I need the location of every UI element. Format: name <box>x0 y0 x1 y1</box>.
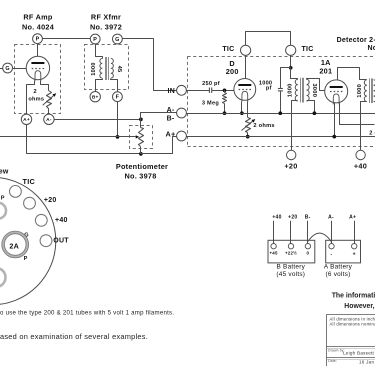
wire cap bottom to rail <box>280 91 282 113</box>
svg-text:1000: 1000 <box>288 83 294 97</box>
wire 1A fil left to A+ rail <box>334 103 336 137</box>
label RF Amp No. 4024 <box>22 13 55 32</box>
dashed box RF Amp <box>15 45 61 114</box>
svg-text:0: 0 <box>307 250 310 255</box>
note line 1 <box>0 310 174 317</box>
label +20 stub <box>288 214 297 220</box>
wire pot bottom <box>140 147 142 154</box>
wire output primary bottom to +40 <box>361 102 367 151</box>
svg-text:OUT: OUT <box>53 237 69 244</box>
terminal A- (RF Amp) <box>44 114 54 124</box>
svg-text:The informati: The informati <box>332 292 375 299</box>
svg-text:A Battery: A Battery <box>324 264 353 271</box>
terminal G (RF Amp) <box>3 63 13 73</box>
svg-text:201: 201 <box>319 67 332 76</box>
terminal F (Xfmr) <box>113 92 123 102</box>
wire primary bottom to +20 <box>292 101 298 151</box>
svg-text:IN: IN <box>168 88 176 95</box>
svg-text:A+: A+ <box>23 117 30 123</box>
svg-text:TIC: TIC <box>222 46 234 53</box>
svg-text:G: G <box>115 37 119 43</box>
output xfmr core <box>370 78 373 103</box>
B terminal +22.5 <box>285 244 297 256</box>
title block frame <box>327 314 375 366</box>
tickler jumper loop <box>246 32 291 46</box>
terminal A+ (RF Amp) <box>21 114 31 124</box>
secondary winding 45 <box>111 59 113 79</box>
wire det rheostat to A+ rail <box>247 133 249 137</box>
title text date <box>359 360 375 365</box>
wire +40 stub <box>273 221 275 244</box>
junction dot grid leak top <box>223 88 227 92</box>
label B- <box>167 116 175 123</box>
svg-text:A-: A- <box>328 214 334 220</box>
svg-text:A+: A+ <box>349 214 356 220</box>
note line 2 <box>0 332 148 341</box>
label A- stub <box>328 214 334 220</box>
svg-text:P: P <box>24 256 28 262</box>
svg-text:G: G <box>5 66 9 72</box>
tube V3 amp 201 <box>325 80 348 105</box>
svg-text:F: F <box>116 95 120 101</box>
wire A- stub <box>331 221 333 244</box>
terminal IN <box>177 85 187 95</box>
dashed box potentiometer <box>130 126 153 149</box>
wire A+ stub <box>354 221 356 244</box>
svg-text:2: 2 <box>34 89 37 95</box>
panel outline circle <box>0 177 56 305</box>
label +40 <box>354 161 367 170</box>
junction dot A-/pot <box>139 118 143 122</box>
label No (cut at edge) <box>368 45 375 52</box>
title text date label <box>328 359 337 363</box>
svg-text:2 ohms: 2 ohms <box>253 123 274 129</box>
svg-text:3 Meg: 3 Meg <box>202 100 219 106</box>
svg-text:B-: B- <box>167 116 175 123</box>
label A Battery <box>324 264 353 278</box>
svg-text:TIC: TIC <box>23 177 36 186</box>
output secondary winding (cut) <box>374 80 375 102</box>
wire left edge to G <box>0 68 3 70</box>
label +20 <box>284 161 297 170</box>
svg-text:200: 200 <box>226 67 239 76</box>
wire node to cap <box>281 68 291 89</box>
svg-text:+40: +40 <box>354 161 367 170</box>
label 2 ohms det <box>253 123 274 129</box>
dashed box detector section <box>188 56 375 147</box>
wire bottom to A+ terminal <box>141 137 177 154</box>
label 1000 pf <box>259 81 272 92</box>
label 1000 (output xfmr) <box>357 84 363 98</box>
svg-text:-: - <box>331 252 333 258</box>
svg-text:A-: A- <box>167 107 175 114</box>
terminal TIC 2 <box>286 45 296 55</box>
terminal P (RF Amp) <box>33 34 43 44</box>
svg-text:+45: +45 <box>269 250 278 255</box>
svg-text:Potentiometer: Potentiometer <box>116 162 168 171</box>
svg-text:Detector 2-: Detector 2- <box>337 37 375 44</box>
primary winding 1000 (audio xfmr) <box>295 79 298 101</box>
svg-text:o use the type 200 & 201 tubes: o use the type 200 & 201 tubes with 5 vo… <box>0 310 174 317</box>
B battery box <box>268 240 315 263</box>
label +20 panel <box>44 197 57 204</box>
svg-text:+20: +20 <box>44 197 57 204</box>
label B- stub <box>305 214 311 220</box>
wire TIC1 to plate cap <box>245 55 247 78</box>
primary winding 1000 <box>100 59 102 79</box>
svg-text:3000: 3000 <box>311 83 317 97</box>
label 2 (ohms cut at edge) <box>369 130 375 136</box>
pot wiper arrow <box>118 135 140 138</box>
wire primary bottom to B+ <box>96 79 103 92</box>
wire IN to cap <box>186 90 209 92</box>
capacitor 1000 pf <box>278 89 283 91</box>
wire TIC2 down to node <box>290 55 292 67</box>
terminal A-/B- <box>177 108 187 118</box>
wire +20 stub <box>290 221 292 244</box>
junction dot secondary bottom <box>313 111 317 115</box>
junction dot 3 Meg bottom <box>223 111 227 115</box>
wire cap to grid <box>212 90 234 92</box>
wire wiper line from left edge <box>0 136 118 138</box>
label 3000 (audio xfmr) <box>311 83 317 97</box>
label D 200 <box>226 59 239 76</box>
label 45 (RF xfmr) <box>116 66 122 73</box>
label P panel <box>1 195 5 201</box>
rheostat 2 ohms det <box>242 118 256 133</box>
svg-text:+20: +20 <box>284 161 297 170</box>
terminal TIC 1 <box>241 45 251 55</box>
wire filament skirt <box>27 81 49 115</box>
label TIC right <box>302 46 314 53</box>
terminal +20 <box>287 150 296 159</box>
wire pot top to B- terminal <box>141 113 177 128</box>
wire secondary bottom to rail <box>307 101 315 114</box>
wire B- stub <box>307 221 309 244</box>
panel hole +40 <box>35 214 47 226</box>
label G panel <box>24 233 29 239</box>
label 1000 (audio xfmr) <box>288 83 294 97</box>
svg-text:ew: ew <box>0 168 9 175</box>
label B Battery <box>276 264 305 278</box>
svg-text:P: P <box>36 37 40 43</box>
svg-text:No. 3972: No. 3972 <box>90 23 122 32</box>
svg-text:A+: A+ <box>165 129 175 138</box>
title text drawn by <box>328 348 345 352</box>
wire node to primary top <box>291 68 298 80</box>
terminal +40 <box>356 150 365 159</box>
svg-text:All dimensions nominal).: All dimensions nominal). <box>330 322 375 327</box>
svg-text:Date:: Date: <box>328 359 337 363</box>
label TIC panel <box>23 177 36 186</box>
wire G xfmr to IN jog <box>123 39 177 91</box>
terminal G (Xfmr) <box>113 34 123 44</box>
svg-text:B+: B+ <box>92 95 99 101</box>
wire 1A fil right jog to right edge <box>340 103 375 125</box>
dashed box RF Xfmr <box>85 45 129 90</box>
svg-text:+40: +40 <box>272 214 281 220</box>
svg-text:Leigh Bassett W3: Leigh Bassett W3 <box>343 350 375 355</box>
svg-text:(6 volts): (6 volts) <box>326 271 351 278</box>
jumper arc B- to A- <box>308 233 332 242</box>
pot resistor <box>139 128 144 147</box>
svg-text:B-: B- <box>305 214 311 220</box>
grid leak 3 Meg <box>223 90 227 113</box>
label Potentiometer <box>116 162 168 181</box>
label RF Xfmr No. 3972 <box>90 13 122 32</box>
svg-text:TIC: TIC <box>302 46 314 53</box>
secondary winding 3000 <box>307 79 310 101</box>
terminal A+ <box>177 131 187 141</box>
panel hole OUT <box>40 235 52 247</box>
A terminal - <box>329 244 334 258</box>
B terminal +45 <box>269 244 278 256</box>
svg-text:+40: +40 <box>55 217 68 224</box>
svg-text:ohms: ohms <box>28 97 44 103</box>
label 2A <box>9 242 19 251</box>
terminal B+ (Xfmr) <box>90 92 100 102</box>
A terminal + <box>352 244 357 258</box>
label A+ terminal <box>165 129 175 138</box>
panel hole TIC <box>10 186 22 198</box>
svg-text:B Battery: B Battery <box>277 264 306 271</box>
junction dot pot bottom <box>139 152 143 156</box>
tube V2 detector 200 <box>234 79 256 102</box>
svg-text:No. 3978: No. 3978 <box>124 172 156 181</box>
svg-text:ased on examination of several: ased on examination of several examples. <box>0 332 148 341</box>
svg-text:2 o: 2 o <box>369 130 375 136</box>
label 250 pf <box>202 81 220 87</box>
terminal P (Xfmr) <box>90 34 100 44</box>
B terminal 0 <box>305 244 310 256</box>
wire A- to pot node <box>54 119 141 121</box>
label A+ stub <box>349 214 356 220</box>
label 2 ohms (RF amp) <box>28 89 44 102</box>
junction dot F/wiper <box>116 135 120 139</box>
panel jack bottom-left <box>0 268 6 287</box>
title text name <box>343 350 375 355</box>
audio xfmr core <box>301 78 304 103</box>
wire A+ down and along bottom <box>27 125 141 154</box>
label +40 stub <box>272 214 281 220</box>
svg-text:No. 4024: No. 4024 <box>22 23 55 32</box>
label 3 Meg <box>202 100 219 106</box>
svg-text:RF Xfmr: RF Xfmr <box>91 13 121 22</box>
svg-text:16 Jan 2: 16 Jan 2 <box>359 360 375 365</box>
output primary winding 1000 <box>364 80 367 102</box>
junction dot TIC2 node <box>289 66 293 70</box>
junction dot 1A fil left <box>332 135 336 139</box>
title text dimensions <box>330 316 375 326</box>
svg-text:+22½: +22½ <box>285 250 297 255</box>
svg-text:1000: 1000 <box>357 84 363 98</box>
wire P lead into xfmr <box>96 44 103 59</box>
label P panel lower <box>24 256 28 262</box>
label Detector 2- (cut at edge) <box>337 37 375 44</box>
note The information <box>332 292 375 299</box>
wire 1A plate to output xfmr <box>338 68 367 80</box>
label OUT panel <box>53 237 69 244</box>
svg-text:However,: However, <box>344 303 374 310</box>
junction dot det fil left <box>240 111 244 115</box>
label TIC left <box>222 46 234 53</box>
wire P to tube top <box>37 44 39 57</box>
wire det fil left <box>241 102 243 114</box>
rail A+ to right edge <box>186 136 375 138</box>
capacitor 250 pf <box>209 88 211 93</box>
wire G to tube <box>13 68 27 70</box>
svg-text:pf: pf <box>266 86 272 92</box>
panel jack P <box>0 203 6 219</box>
wire F down to wiper line <box>117 102 119 137</box>
rheostat 2 ohms RF amp <box>43 91 57 109</box>
junction dot det rheostat <box>246 135 250 139</box>
svg-text:2A: 2A <box>9 242 19 251</box>
rail A-/B- to right edge <box>186 113 375 115</box>
socket 2A ring <box>2 231 29 258</box>
label +40 panel <box>55 217 68 224</box>
panel hole +20 <box>24 197 36 209</box>
note However <box>344 303 374 310</box>
label 1000 (RF xfmr) <box>91 62 97 75</box>
svg-text:P: P <box>1 195 5 201</box>
label 1A 201 <box>319 58 332 76</box>
junction dot cap bottom <box>278 111 282 115</box>
A battery box <box>326 240 361 263</box>
label A- <box>167 107 175 114</box>
svg-text:A-: A- <box>46 117 52 123</box>
xfmr core <box>106 57 109 80</box>
svg-text:RF Amp: RF Amp <box>23 13 52 22</box>
svg-text:+: + <box>353 252 356 258</box>
wire det fil right to rheostat <box>247 102 249 118</box>
svg-text:P: P <box>93 37 97 43</box>
svg-text:250 pf: 250 pf <box>202 81 220 87</box>
svg-text:45: 45 <box>116 66 122 73</box>
wire secondary bottom to F <box>111 79 118 92</box>
label view (cut) <box>0 168 9 175</box>
tube V1 RF amp <box>26 56 49 81</box>
svg-text:(45 volts): (45 volts) <box>276 271 305 278</box>
svg-text:No: No <box>368 45 375 52</box>
wire rheostat to A- <box>48 108 50 114</box>
svg-text:+20: +20 <box>288 214 297 220</box>
label IN <box>168 88 176 95</box>
wire secondary top to 1A grid <box>307 79 325 91</box>
wire top rail P-P <box>42 38 90 40</box>
svg-text:1000: 1000 <box>91 62 97 75</box>
